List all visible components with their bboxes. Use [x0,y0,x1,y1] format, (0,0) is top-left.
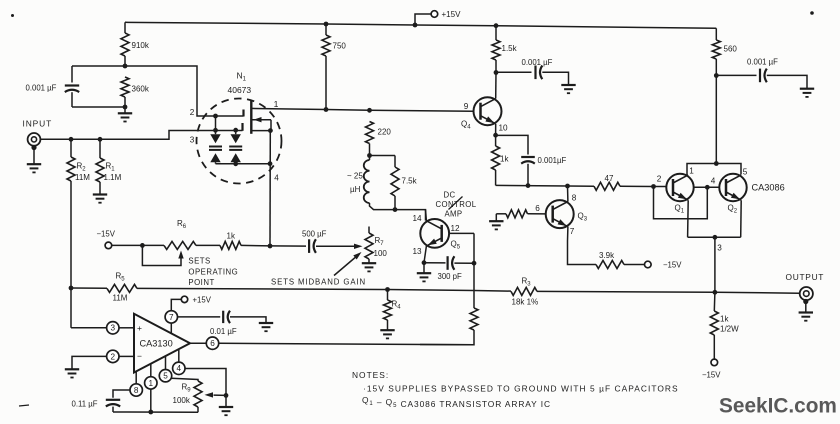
transistor Q1 [666,174,693,201]
op-amp pin 4 [173,362,185,374]
wire collector of Q4 to 1.5k [495,73,497,99]
wire collector of Q5 up to coil bottom [425,210,428,221]
svg-text:0.11 µF: 0.11 µF [72,400,98,409]
wire pin 2 to ground [72,356,107,368]
svg-text:0.001 µF: 0.001 µF [26,84,57,93]
capacitor 0.001uF (input divider bypass) [65,66,79,107]
label 0.001 uF (output bypass) [747,58,778,67]
potentiometer R9 100k [194,381,202,412]
wire drain of N1 to base of Q4 (drain bus) [251,107,473,113]
svg-text:220: 220 [378,128,392,137]
svg-text:3: 3 [111,324,116,333]
label pin 1 of N1 [274,99,279,109]
label OUTPUT [786,272,825,282]
label 100k [173,396,191,405]
R9 wiper arrow [205,392,227,397]
wire emitter of Q3 to 3.9k [568,227,597,265]
svg-text:AMP: AMP [444,210,462,219]
capacitor 0.001uF (Q4 collector bypass) [536,66,543,80]
label -15V (Q3 emitter) [663,261,682,270]
transistor Q3 [546,200,574,228]
wire emitter of Q1 down [687,200,690,237]
svg-text:OPERATING: OPERATING [188,268,238,277]
label 11M (R2) [75,173,90,182]
wire base of Q2 link [694,185,720,190]
label 1.5k [502,44,518,53]
wire node 3 down to output node [714,237,716,292]
svg-text:1: 1 [274,99,279,109]
wire feedback line to output node [537,290,717,295]
label Q5 [451,240,461,251]
label 11M (R5) [113,294,128,303]
svg-text:+: + [137,323,142,333]
label 47 [605,174,614,183]
label 0.001 uF (Q4 bypass) [522,58,553,67]
wire feedback line left section [69,286,107,291]
svg-text:100: 100 [374,249,388,258]
wire base node vertical (crosses feedback line) [473,233,475,308]
wire 1k to source node [241,244,270,247]
label SETS MIDBAND GAIN [271,277,366,286]
svg-text:12: 12 [451,224,461,233]
resistor 1.5k [492,23,500,75]
ground (below R4) [380,330,394,338]
label 8 (collector of Q3) [572,194,577,203]
transistor Q5 [420,219,449,248]
capacitor 0.01uF [223,311,230,323]
label +15V (top) [442,10,462,19]
wire emitter bus Q1/Q2 (node 3) [688,235,741,240]
svg-text:0.001 µF: 0.001 µF [522,58,553,67]
svg-text:SETS MIDBAND GAIN: SETS MIDBAND GAIN [271,277,366,286]
label 360k [132,85,150,94]
resistor 560 [712,28,720,78]
wire source node to 500uF [270,245,306,247]
power terminal +15V (op-amp) [181,296,187,302]
resistor 220 [366,122,374,158]
svg-text:0.01 µF: 0.01 µF [210,327,237,336]
svg-text:4: 4 [274,174,279,183]
svg-text:6: 6 [210,339,215,348]
resistor R5 11M [107,284,137,292]
wire 560 junction to bypass cap [716,74,756,76]
svg-text:8: 8 [572,194,577,203]
op-amp pin 5 [159,370,171,382]
label 220 [378,128,392,137]
label 4 (base of Q2) [711,176,716,185]
svg-text:−15V: −15V [663,261,682,270]
wire cap bottom to 360k bottom [72,105,127,110]
svg-text:2: 2 [190,108,195,117]
svg-text:910k: 910k [132,41,150,50]
label Q2 [728,204,738,215]
svg-text:10: 10 [499,124,509,133]
wire 500uF to R7 wiper (arrow) [316,244,363,249]
svg-text:−15V: −15V [97,230,116,239]
potentiometer R7 100 [365,227,373,263]
svg-text:SETS: SETS [188,257,210,266]
svg-text:560: 560 [724,45,738,54]
label R1 [106,161,116,172]
gate protection diodes (gate 2 pair) [209,116,222,164]
wire Q4 emitter to 0.001uF cap [496,135,528,154]
svg-text:7: 7 [169,313,174,322]
label 5 (collector of Q2) [743,167,748,176]
label 14 (collector of Q5) [413,214,423,223]
label SETS OPERATING POINT [188,257,238,287]
svg-text:5: 5 [163,372,168,381]
wire feedback line middle section [137,287,511,292]
resistor 3.9k [596,261,624,269]
wire source pin 4 of N1 down to R6/1k/500uF node [268,131,273,249]
label 9 (base of Q4) [464,102,469,111]
wire 3.9k to -15V terminal [624,264,644,266]
wire pin 1 down to bottom bus [148,389,153,414]
svg-text:µH: µH [350,185,361,194]
svg-text:0.001 µF: 0.001 µF [747,58,778,67]
wire coil/7.5k bottom to collector of Q5 (pin 14) [395,210,426,221]
resistor R2 11M [67,139,75,288]
label 7 (emitter of Q3) [570,227,575,236]
label note line 2 [362,395,551,409]
svg-text:9: 9 [464,102,469,111]
svg-text:·15V SUPPLIES BYPASSED TO GROU: ·15V SUPPLIES BYPASSED TO GROUND WITH 5 … [363,384,679,394]
ground (Q4 bypass cap) [561,85,575,93]
wire 300pF to base node [454,261,476,266]
label -15V (output load) [702,371,721,380]
label 500 uF [302,230,327,239]
resistor 47 [568,182,654,190]
ground (0.01uF) [259,323,273,331]
svg-text:1: 1 [149,379,154,388]
potentiometer R6 (rheostat) [142,241,220,249]
svg-text:CONTROL: CONTROL [436,200,477,209]
resistor 750 [322,22,330,110]
svg-text:500 µF: 500 µF [302,230,327,239]
label R7 [375,236,385,247]
label pin 2 of N1 [190,108,195,117]
wire cap bottom lead [527,164,529,186]
capacitor 300pF [448,256,455,270]
op-amp pin 1 [145,377,157,389]
resistor (Q3 base) [506,210,528,218]
power terminal -15V (output load) [711,359,718,366]
svg-text:1.5k: 1.5k [502,44,518,53]
label 3.9k [599,251,615,260]
input connector J1 [28,133,41,164]
svg-text:1k: 1k [720,315,729,324]
ground (pin 2) [65,369,79,377]
capacitor 0.001uF (output stage bypass) [760,69,767,83]
wire collector bar Q1/Q2 [687,164,741,175]
svg-text:8: 8 [134,386,139,395]
svg-text:3.9k: 3.9k [599,251,615,260]
output connector J2 [800,287,813,312]
label Q3 [578,212,588,223]
resistor 7.5k [391,167,399,212]
wire cap to ground (output bypass) [767,75,807,88]
label 2 (base of Q1) [657,174,662,183]
MOSFET N1 substrate arrow and source tie [251,117,272,133]
wire bottom bus (0.11uF to R9 bottom) [113,407,198,413]
label 560 [724,45,738,54]
svg-text:7.5k: 7.5k [402,177,418,186]
wire pin 8 to 0.11uF [113,390,130,398]
gate protection diodes (gate 1 pair) [229,130,242,166]
ground (Q3 base resistor) [489,214,506,230]
label NOTES heading [352,370,389,380]
label 1k (output load) [720,315,729,324]
wire junction to bypass cap 0.001uF (top-left) [72,65,125,67]
label 300 pF [438,272,463,281]
svg-text:DC: DC [443,190,455,199]
svg-text:14: 14 [413,214,423,223]
op-amp pin 6 [206,337,218,349]
wire base loop under Q1 [654,187,708,219]
op-amp pin 2 [107,350,119,362]
wire pin 4 lead [178,349,180,362]
svg-text:3: 3 [190,136,195,145]
label 10 (emitter of Q4) [499,124,509,133]
wire gate-2 feed from divider junction [125,66,244,118]
wire 220 bottom to 7.5k top [370,156,396,168]
label 3 (emitters node) [717,244,722,253]
svg-text:−15V: −15V [702,371,721,380]
label R5 [116,271,126,282]
svg-text:18k 1%: 18k 1% [512,297,539,306]
svg-text:2: 2 [657,174,662,183]
svg-text:+15V: +15V [193,296,212,305]
wire input to gate 1 of N1 [41,128,243,142]
label 910k [132,41,150,50]
label CA3130 [140,339,173,349]
annotation arrow SETS MIDBAND GAIN [334,252,362,276]
power terminal +15V (top) [413,11,438,28]
svg-text:NOTES:: NOTES: [352,370,389,380]
label Q4 [461,120,471,131]
wire 560 node down to Q1/Q2 collectors [714,76,719,166]
capacitor 500uF [309,239,316,253]
wire 0.01uF to ground [230,317,266,322]
label note line 1 [363,384,679,394]
resistor 360k [121,77,129,107]
wire base of Q5 to divider node [450,232,474,234]
svg-text:1: 1 [689,166,694,175]
label 0.01 uF [210,327,237,336]
label CA3086 [752,183,785,193]
svg-text:47: 47 [605,174,614,183]
ground (Q5 emitter) [417,263,431,282]
svg-text:1k: 1k [500,155,509,164]
wire pin 6 output line [219,343,474,345]
wire pin 6 lead [190,342,206,344]
label + input [137,323,142,333]
label 40673 [228,85,252,95]
capacitor 0.001uF (Q4 emitter) [521,157,535,164]
label R9 [182,383,192,394]
svg-text:40673: 40673 [228,85,252,95]
wire pin 5 lead [165,356,167,370]
svg-text:360k: 360k [132,85,150,94]
dual-gate MOSFET N1 40673 package (dashed circle) [197,99,282,184]
op-amp pin 8 [130,384,142,396]
ground (below 360k) [118,107,132,122]
wire pin 1 lead [150,364,152,377]
power terminal -15V (Q3 emitter) [645,261,652,268]
svg-text:11M: 11M [113,294,128,303]
svg-text:300 pF: 300 pF [438,272,463,281]
R6 wiper tie [142,245,183,265]
wire Q5 emitter node to 300pF [424,262,446,264]
wire emitter of Q5 to ground node [422,246,427,265]
label 0.001uF (Q4 emitter) [538,156,567,165]
op-amp pin 3 [107,322,119,334]
watermark SeekIC.com [719,395,837,418]
resistor 1k 1/2W [710,292,718,359]
svg-text:1.1M: 1.1M [104,173,122,182]
resistor R3 18k 1% [511,287,537,295]
ground (input connector) [27,164,41,172]
svg-text:7: 7 [570,227,575,236]
label 13 (emitter of Q5) [413,247,423,256]
resistor R1 1.1M [96,139,104,193]
wire pin 3 to R2/R5 node [71,288,107,328]
ground (below R7) [362,263,376,271]
label R3 [522,277,532,288]
svg-text:POINT: POINT [188,278,214,287]
resistor 1k (source bias) [220,241,241,249]
resistor (op-amp output to Q5 base) [420,308,478,345]
ground (pin 4 / R9 wiper) [219,395,233,415]
label 6 (base of Q3) [535,204,540,213]
svg-text:CA3130: CA3130 [140,339,173,349]
label 7.5k [402,177,418,186]
svg-text:1k: 1k [227,231,236,240]
label pin 4 of N1 [274,174,279,183]
label DC CONTROL AMP [436,190,477,218]
svg-text:3: 3 [717,244,722,253]
wire diode commons to source (pin 4) [216,161,273,166]
label pin 3 of N1 [190,136,195,145]
wire emitter network bottom bus [496,183,570,188]
svg-text:4: 4 [177,364,182,373]
wire pin 2 lead [119,355,134,357]
wire 1.5k junction to bypass cap [496,71,532,73]
wire pin 7 to 0.01uF [178,316,221,318]
wire collector of Q3 up to bus [567,186,569,202]
ground (output connector) [799,313,813,321]
resistor R4 [384,290,392,330]
svg-text:100k: 100k [173,396,191,405]
transistor Q4 [474,97,502,125]
resistor 910k [121,22,129,66]
MOSFET N1 gate 1 electrode [241,123,243,131]
label INPUT [23,119,53,129]
svg-text:SeekIC.com: SeekIC.com [719,395,837,418]
label 0.001 uF (top-left) [26,84,57,93]
label - input [137,351,142,361]
op-amp pin 7 [165,311,177,323]
wire emitter of Q4 down to 1k [493,124,498,138]
node A junction 910k/360k [123,64,128,69]
wire Q3 base resistor to base [528,213,546,215]
svg-text:0.001µF: 0.001µF [538,156,567,165]
label 18k 1% [512,297,539,306]
MOSFET N1 channel bar [250,101,252,134]
ground (output bypass cap) [800,89,814,97]
inductor 25uH [364,156,395,210]
svg-text:−: − [137,351,142,361]
svg-text:INPUT: INPUT [23,119,53,129]
label +15V (op-amp) [193,296,212,305]
svg-text:750: 750 [333,42,347,51]
label N1 [237,71,247,83]
svg-text:4: 4 [711,176,716,185]
wire emitter of Q2 down [740,200,743,237]
svg-text:~ 25: ~ 25 [347,172,363,181]
label R4 [392,300,402,311]
svg-text:2: 2 [111,352,116,361]
label 1/2W [720,325,739,334]
wire cap to ground (Q4 bypass) [542,72,568,84]
svg-text:6: 6 [535,204,540,213]
resistor 1k (Q4 emitter) [492,135,500,185]
svg-text:5: 5 [743,167,748,176]
wire pin 5 to R9 top [171,378,198,381]
wire pin 4 to ground [185,369,228,398]
label 100 (R7) [374,249,388,258]
wire pin 3 lead [119,327,134,329]
svg-text:OUTPUT: OUTPUT [786,272,825,282]
wire pin 8 lead [135,371,137,384]
wire 47 to base of Q1 [651,184,666,189]
op-amp U1 CA3130 triangle [134,314,190,373]
label -15V (R6 feed) [97,230,116,239]
ground (below R1) [93,195,107,203]
label 1k (Q4 emitter) [500,155,509,164]
label 1k (source bias) [227,231,236,240]
svg-text:11M: 11M [75,173,90,182]
wire pin 7 to +15V terminal [171,299,181,310]
label 1.1M (R1) [104,173,122,182]
svg-text:+15V: +15V [442,10,462,19]
label R2 [77,161,87,172]
wire +15V top supply rail [125,22,716,28]
label 750 [333,42,347,51]
wire output node to connector [715,291,800,294]
transistor Q2 [719,174,746,201]
capacitor 0.11uF [106,400,120,407]
MOSFET N1 gate 2 electrode [242,110,244,117]
label 12 (base of Q5) [451,224,461,233]
label 0.11 uF [72,400,98,409]
label R6 [177,219,187,230]
label ~25 uH [347,172,363,194]
wire pin 7 lead up [170,323,172,333]
svg-text:CA3086: CA3086 [752,183,785,193]
label 1 (collector of Q1) [689,166,694,175]
power terminal -15V (R6 feed) [105,242,145,249]
label Q1 [675,204,685,215]
svg-text:1/2W: 1/2W [720,325,739,334]
svg-text:13: 13 [413,247,423,256]
